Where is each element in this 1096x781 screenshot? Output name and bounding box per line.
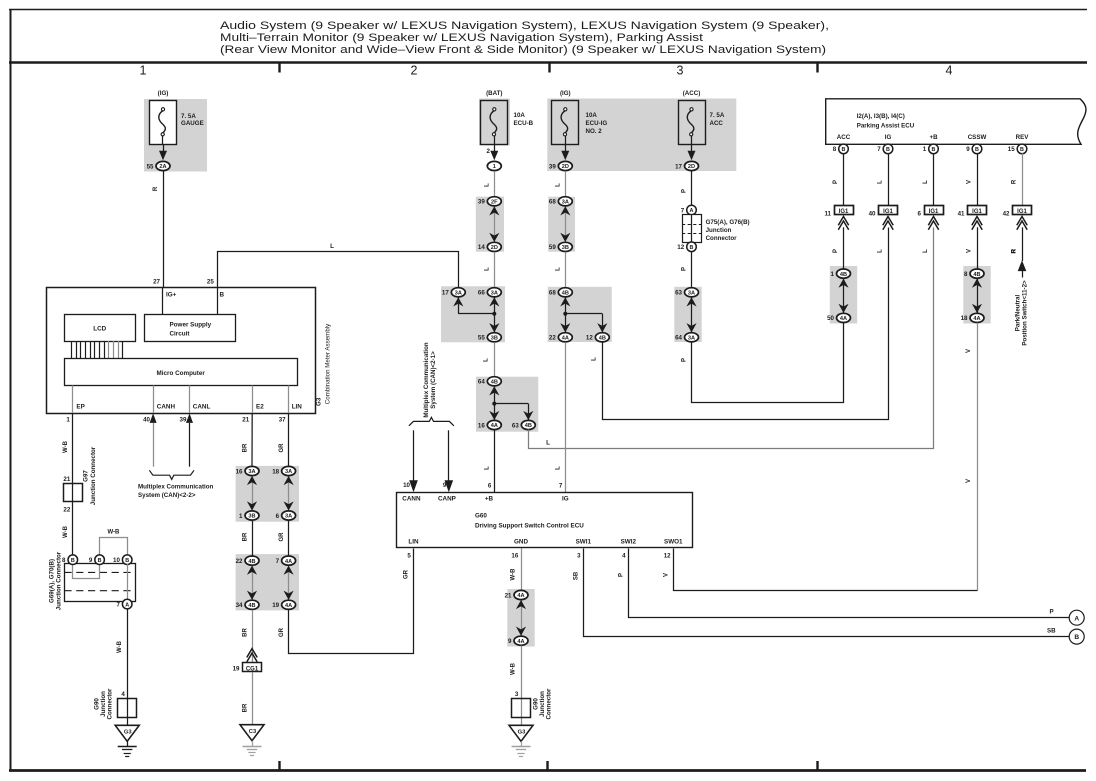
LCD block: [65, 315, 136, 342]
svg-text:GND: GND: [514, 538, 528, 545]
svg-text:4: 4: [121, 691, 125, 698]
svg-text:22: 22: [236, 558, 243, 565]
wire B pin stub: [217, 287, 219, 314]
power supply circuit block: [145, 315, 236, 342]
junction connector G69(A),G70(B): [65, 564, 136, 602]
svg-text:4A: 4A: [517, 593, 524, 599]
svg-text:2F: 2F: [491, 200, 498, 206]
svg-text:(IG): (IG): [158, 90, 169, 97]
svg-text:66: 66: [478, 290, 485, 297]
svg-text:E2: E2: [256, 404, 264, 411]
svg-text:50: 50: [827, 315, 834, 322]
fuse 10A ECU-IG NO.2 (IG): [552, 90, 579, 160]
svg-text:18: 18: [961, 315, 968, 322]
wire L 12(4B) to 40 IG1: [603, 228, 889, 420]
svg-text:10: 10: [113, 557, 120, 564]
hatch lines LCD to micro computer: [71, 341, 73, 359]
svg-text:IG1: IG1: [929, 209, 939, 215]
svg-text:L: L: [484, 358, 490, 362]
wire CANH with arrow: [150, 413, 157, 423]
wire W-B EP pin to G97: [72, 413, 74, 555]
svg-text:3A: 3A: [285, 514, 292, 520]
svg-text:V: V: [967, 180, 973, 184]
wire L to 2F: [494, 171, 496, 197]
svg-text:C3: C3: [249, 729, 257, 735]
svg-text:W-B: W-B: [63, 440, 69, 453]
svg-text:19: 19: [233, 665, 240, 672]
svg-text:21: 21: [505, 592, 512, 599]
junction connector G90 (left): [118, 699, 137, 718]
svg-text:G3: G3: [316, 397, 323, 406]
column ticks and numbers: [278, 62, 280, 73]
svg-text:Connector: Connector: [546, 688, 553, 720]
svg-text:2A: 2A: [159, 164, 166, 170]
connector pair 21(4A)/9(4A): [505, 590, 528, 645]
svg-text:4A: 4A: [285, 603, 292, 609]
svg-text:55: 55: [478, 335, 485, 342]
svg-text:LIN: LIN: [292, 404, 303, 411]
svg-text:64: 64: [675, 335, 682, 342]
svg-text:L: L: [556, 267, 562, 271]
svg-text:B: B: [125, 558, 129, 564]
svg-text:P: P: [619, 573, 625, 577]
connector 40 IG1 (IG): [869, 206, 898, 230]
svg-text:3: 3: [677, 64, 684, 78]
wire GR from LIN: [288, 413, 290, 466]
svg-text:B: B: [886, 147, 890, 153]
svg-text:8: 8: [62, 557, 66, 564]
svg-text:9: 9: [89, 557, 93, 564]
parking assist ECU I2/I3/I4 box: [826, 99, 1086, 145]
svg-text:V: V: [966, 349, 972, 353]
wire L from meter B to 17(3A): [218, 252, 459, 289]
svg-text:4B: 4B: [248, 559, 255, 565]
svg-text:(IG): (IG): [560, 90, 571, 97]
svg-text:10: 10: [403, 482, 410, 489]
svg-text:LCD: LCD: [93, 326, 106, 333]
svg-text:3: 3: [577, 553, 581, 560]
svg-text:L: L: [556, 183, 562, 187]
svg-text:L: L: [330, 243, 334, 250]
fuse 7.5A ACC (ACC): [679, 90, 706, 160]
svg-text:G97: G97: [83, 470, 90, 482]
svg-text:W-B: W-B: [107, 530, 120, 536]
svg-text:2: 2: [411, 64, 418, 78]
svg-text:L: L: [485, 183, 491, 187]
svg-text:Multi–Terrain Monitor (9 Speak: Multi–Terrain Monitor (9 Speaker w/ LEXU…: [220, 32, 703, 44]
svg-text:64: 64: [478, 379, 485, 386]
connector 1: [487, 161, 501, 170]
svg-text:V: V: [967, 249, 973, 253]
wire GR 19(4A) to G60 LIN: [289, 549, 414, 654]
svg-text:16: 16: [236, 468, 243, 475]
svg-text:39: 39: [180, 417, 187, 424]
svg-text:68: 68: [549, 290, 556, 297]
svg-text:A: A: [125, 602, 129, 608]
svg-text:3B: 3B: [248, 514, 255, 520]
svg-text:4B: 4B: [599, 336, 606, 342]
svg-text:BR: BR: [242, 443, 248, 452]
svg-text:ACC: ACC: [837, 134, 851, 141]
node A circle: [1069, 610, 1084, 625]
svg-text:3: 3: [515, 691, 519, 698]
connector pair 39(2F)/14(2D): [478, 197, 501, 252]
connector pair 16(3A)/1(3B): [236, 466, 259, 520]
svg-text:7: 7: [877, 146, 881, 153]
connector 41 IG1 (CSSW): [958, 206, 987, 230]
connector 6 IG1 (+B): [918, 206, 944, 230]
svg-text:2: 2: [487, 148, 491, 155]
svg-text:10A: 10A: [514, 112, 526, 119]
svg-text:2D: 2D: [491, 245, 498, 251]
svg-text:B: B: [1020, 147, 1024, 153]
wire P to 63(3A): [691, 251, 693, 287]
svg-text:I2(A), I3(B), I4(C): I2(A), I3(B), I4(C): [857, 113, 905, 120]
svg-text:4B: 4B: [248, 603, 255, 609]
wire L 16(4A) to G60 +B: [494, 430, 496, 492]
svg-text:4B: 4B: [840, 272, 847, 278]
wire SB SWI1 to B circle: [584, 549, 1070, 637]
wire P to 7A: [691, 171, 693, 206]
connector pair 8(4B)/18(4A): [961, 269, 984, 323]
svg-text:BR: BR: [242, 703, 248, 712]
svg-text:Park/Neutral: Park/Neutral: [1014, 294, 1021, 331]
driving support switch control ECU G60 box: [397, 493, 693, 548]
junction block 68(4B) 22(4A) 12(4B): [549, 288, 609, 342]
svg-text:1: 1: [140, 64, 147, 78]
svg-text:3A: 3A: [455, 291, 462, 297]
svg-text:1: 1: [66, 417, 70, 424]
svg-text:L: L: [878, 180, 884, 184]
svg-text:4A: 4A: [973, 316, 980, 322]
svg-text:G3: G3: [518, 730, 527, 736]
svg-text:P: P: [682, 189, 688, 193]
svg-text:CSSW: CSSW: [968, 134, 987, 141]
svg-text:+B: +B: [929, 134, 938, 141]
svg-text:L: L: [485, 267, 491, 271]
svg-text:4A: 4A: [562, 336, 569, 342]
ground C3: [240, 725, 264, 756]
svg-text:16: 16: [511, 553, 518, 560]
svg-text:4B: 4B: [973, 272, 980, 278]
svg-text:CANN: CANN: [402, 496, 421, 503]
connector 39(2D): [549, 161, 572, 170]
junction block 17(3A) 66(3A) 55(3B): [442, 288, 501, 342]
svg-text:Connector: Connector: [706, 235, 738, 242]
svg-text:NO. 2: NO. 2: [586, 128, 603, 135]
wire W-B GND to 21(4A): [521, 548, 523, 590]
svg-text:P: P: [833, 249, 839, 253]
svg-text:BR: BR: [242, 628, 248, 637]
svg-text:CANP: CANP: [438, 496, 456, 503]
svg-text:P: P: [682, 267, 688, 271]
svg-text:CANH: CANH: [157, 404, 176, 411]
micro computer block: [65, 359, 298, 386]
svg-text:19: 19: [272, 602, 279, 609]
svg-text:25: 25: [207, 279, 214, 286]
connector CG1: [243, 663, 262, 672]
svg-text:7: 7: [559, 483, 563, 490]
connector pair 22(4B)/34(4B): [236, 556, 259, 609]
wire R to park/neutral position switch: [1022, 227, 1024, 261]
svg-text:17: 17: [675, 163, 682, 170]
svg-text:G3: G3: [124, 730, 133, 736]
wire L 22(4A) to G60 IG: [565, 342, 567, 492]
svg-text:4A: 4A: [285, 559, 292, 565]
svg-text:21: 21: [63, 476, 70, 483]
connector pair 1(4B)/50(4A): [827, 269, 850, 323]
svg-text:1: 1: [923, 146, 927, 153]
wire GR: [288, 520, 290, 555]
svg-text:V: V: [664, 573, 670, 577]
svg-text:B: B: [71, 558, 75, 564]
svg-text:21: 21: [242, 417, 249, 424]
wire V SWO1 to CSSW run: [674, 549, 978, 591]
svg-text:10A: 10A: [586, 112, 598, 119]
outer border frame: [9, 9, 1087, 11]
svg-text:9: 9: [443, 482, 447, 489]
svg-text:G75(A), G76(B): G75(A), G76(B): [706, 219, 750, 226]
svg-text:V: V: [966, 479, 972, 483]
svg-text:A: A: [690, 208, 694, 214]
svg-text:22: 22: [63, 507, 70, 514]
svg-text:Combination Meter Assembly: Combination Meter Assembly: [325, 323, 332, 404]
wire P 11 IG1 to 1(4B): [843, 227, 845, 268]
svg-text:ECU-IG: ECU-IG: [586, 120, 608, 127]
svg-text:R: R: [1012, 249, 1018, 254]
svg-text:CG1: CG1: [246, 666, 259, 672]
svg-text:7. 5A: 7. 5A: [181, 113, 196, 120]
svg-text:W-B: W-B: [63, 525, 69, 538]
svg-text:IG1: IG1: [972, 209, 982, 215]
svg-text:SWI2: SWI2: [621, 538, 637, 545]
ground G3 (left): [115, 725, 139, 756]
svg-text:4: 4: [622, 553, 626, 560]
svg-text:Circuit: Circuit: [170, 331, 191, 338]
wire 10B down to 7A: [127, 564, 129, 600]
svg-text:3A: 3A: [285, 469, 292, 475]
svg-text:Position Switch<11-2>: Position Switch<11-2>: [1021, 280, 1028, 346]
svg-text:3A: 3A: [491, 291, 498, 297]
fuse 10A ECU-B (BAT): [481, 90, 508, 160]
svg-text:7. 5A: 7. 5A: [710, 112, 725, 119]
wire L to 64(4B): [494, 342, 496, 377]
svg-text:6: 6: [276, 513, 280, 520]
wire V 18(4A) down to SWO1 run: [977, 323, 979, 591]
svg-text:37: 37: [279, 417, 286, 424]
svg-text:6: 6: [488, 483, 492, 490]
svg-text:SB: SB: [574, 571, 580, 580]
svg-text:6: 6: [918, 210, 922, 217]
svg-text:B: B: [975, 147, 979, 153]
svg-text:34: 34: [236, 602, 243, 609]
svg-text:12: 12: [586, 335, 593, 342]
svg-text:Parking Assist ECU: Parking Assist ECU: [857, 123, 915, 130]
svg-text:40: 40: [869, 210, 876, 217]
svg-text:1: 1: [239, 513, 243, 520]
connector pair 7(4A)/19(4A): [272, 556, 295, 609]
svg-text:IG1: IG1: [839, 209, 849, 215]
svg-text:9: 9: [508, 638, 512, 645]
svg-text:(BAT): (BAT): [486, 90, 502, 97]
svg-text:IG: IG: [562, 496, 569, 503]
svg-text:(Rear View Monitor and Wide–Vi: (Rear View Monitor and Wide–View Front &…: [220, 44, 826, 56]
svg-text:SWI1: SWI1: [576, 538, 592, 545]
svg-text:8: 8: [833, 146, 837, 153]
svg-text:IG+: IG+: [166, 292, 177, 299]
svg-text:12: 12: [677, 244, 684, 251]
svg-text:7: 7: [681, 207, 685, 214]
svg-text:14: 14: [478, 244, 485, 251]
svg-text:7: 7: [116, 601, 120, 608]
svg-text:8: 8: [964, 271, 968, 278]
svg-text:L: L: [923, 180, 929, 184]
svg-text:63: 63: [675, 290, 682, 297]
svg-text:W-B: W-B: [511, 568, 517, 581]
svg-text:SWO1: SWO1: [664, 538, 683, 545]
wire BR CG1 to C3: [252, 672, 254, 725]
svg-text:2D: 2D: [688, 164, 695, 170]
connector pair 63(3A)/64(3A): [675, 288, 698, 342]
svg-text:System (CAN)<2-1>: System (CAN)<2-1>: [430, 351, 437, 409]
svg-text:3A: 3A: [562, 200, 569, 206]
connector 2A pin 55: [156, 161, 170, 170]
svg-text:R: R: [153, 186, 159, 191]
svg-text:41: 41: [958, 210, 965, 217]
W-B loop 9B to 10B: [100, 538, 128, 556]
svg-text:55: 55: [147, 163, 154, 170]
svg-text:3A: 3A: [688, 291, 695, 297]
svg-text:22: 22: [549, 335, 556, 342]
svg-text:40: 40: [143, 417, 150, 424]
internal link 8B to 9B: [73, 564, 100, 579]
svg-text:ACC: ACC: [710, 120, 724, 127]
svg-text:4B: 4B: [525, 423, 532, 429]
wire L to 66(3A): [494, 252, 496, 288]
svg-text:L: L: [923, 249, 929, 253]
svg-text:Power Supply: Power Supply: [170, 322, 212, 329]
svg-text:(ACC): (ACC): [683, 90, 701, 97]
wire L to 68(3A): [565, 171, 567, 197]
svg-text:IG1: IG1: [1017, 209, 1027, 215]
wire R fuse to meter IG+: [163, 171, 165, 287]
svg-text:+B: +B: [485, 496, 494, 503]
wire W-B 7A to G90: [127, 608, 129, 725]
svg-text:G69(A), G70(B): G69(A), G70(B): [49, 559, 56, 603]
svg-text:SB: SB: [1047, 627, 1056, 634]
connector 42 IG1 (REV): [1003, 206, 1032, 230]
svg-text:4A: 4A: [517, 639, 524, 645]
wire BR to CG1: [252, 610, 254, 663]
svg-text:Multiplex Communication: Multiplex Communication: [138, 484, 214, 491]
svg-text:3A: 3A: [248, 469, 255, 475]
svg-text:17: 17: [442, 290, 449, 297]
svg-text:11: 11: [824, 210, 831, 217]
svg-text:B: B: [220, 292, 225, 299]
svg-text:B: B: [1074, 634, 1079, 641]
svg-text:Multiplex Communication: Multiplex Communication: [423, 342, 430, 418]
svg-text:12: 12: [664, 553, 671, 560]
svg-text:G60: G60: [475, 513, 487, 520]
title separator: [9, 61, 1087, 64]
svg-text:ECU-B: ECU-B: [514, 120, 534, 127]
svg-text:P: P: [1050, 608, 1054, 615]
svg-text:7: 7: [276, 558, 280, 565]
svg-text:4A: 4A: [491, 423, 498, 429]
wire V 41 IG1 to 8(4B): [977, 227, 979, 268]
shaded background blocks: [144, 99, 207, 172]
junction connector G75(A),G76(B): [677, 205, 749, 251]
svg-text:IG1: IG1: [883, 209, 893, 215]
svg-text:1: 1: [493, 164, 496, 170]
wire P SWI2 to A circle: [629, 549, 1070, 618]
svg-text:39: 39: [478, 199, 485, 206]
svg-text:B: B: [98, 558, 102, 564]
svg-text:W-B: W-B: [117, 640, 123, 653]
fuse 7.5A GAUGE (IG): [150, 90, 177, 160]
svg-text:Connector: Connector: [107, 688, 114, 720]
svg-text:A: A: [1074, 615, 1079, 622]
combination meter assembly G3 box: [47, 288, 316, 414]
svg-text:P: P: [833, 180, 839, 184]
svg-text:4: 4: [946, 64, 953, 78]
CANN/CANP wires with arrows: [413, 430, 415, 481]
junction connector G97: [64, 484, 83, 502]
svg-text:L: L: [546, 439, 550, 446]
svg-text:4B: 4B: [562, 291, 569, 297]
svg-text:Junction Connector: Junction Connector: [90, 446, 97, 505]
meter pin stubs: [72, 385, 74, 413]
svg-text:59: 59: [549, 244, 556, 251]
wire L 63(4B) to 6 IG1: [529, 228, 934, 449]
svg-text:EP: EP: [76, 404, 84, 411]
svg-text:Audio System (9 Speaker w/ LEX: Audio System (9 Speaker w/ LEXUS Navigat…: [220, 20, 829, 32]
svg-text:16: 16: [478, 422, 485, 429]
brace multiplex CAN (meter side): [149, 470, 194, 479]
svg-text:3A: 3A: [688, 336, 695, 342]
svg-text:REV: REV: [1016, 134, 1030, 141]
svg-text:18: 18: [272, 468, 279, 475]
connector 11 IG1 (ACC): [824, 206, 853, 230]
svg-text:B: B: [690, 245, 694, 251]
svg-text:Junction: Junction: [706, 227, 732, 234]
svg-text:5: 5: [407, 553, 411, 560]
svg-text:CANL: CANL: [193, 404, 211, 411]
svg-text:L: L: [592, 357, 598, 361]
svg-text:GAUGE: GAUGE: [181, 120, 204, 127]
svg-text:LIN: LIN: [408, 538, 419, 545]
svg-text:BR: BR: [242, 532, 248, 541]
wire BR: [252, 520, 254, 555]
svg-text:4B: 4B: [491, 380, 498, 386]
svg-text:R: R: [1012, 179, 1018, 184]
svg-text:Driving Support Switch Control: Driving Support Switch Control ECU: [475, 523, 584, 530]
node B circle: [1069, 629, 1084, 644]
wire L to 68(4B): [565, 252, 567, 288]
svg-text:42: 42: [1003, 210, 1010, 217]
junction block 64(4B) 16(4A) 63(4B): [478, 377, 535, 430]
svg-text:3B: 3B: [562, 245, 569, 251]
wire W-B to G90: [521, 646, 523, 726]
svg-text:L: L: [556, 466, 562, 470]
svg-text:GR: GR: [279, 532, 285, 542]
wire IG+ pin stub: [162, 287, 164, 314]
wire P 64(3A) to 50(4A): [692, 323, 844, 403]
connector pair 68(3A)/59(3B): [549, 197, 572, 252]
wire BR from E2: [251, 413, 253, 466]
svg-text:B: B: [932, 147, 936, 153]
svg-text:3B: 3B: [491, 336, 498, 342]
